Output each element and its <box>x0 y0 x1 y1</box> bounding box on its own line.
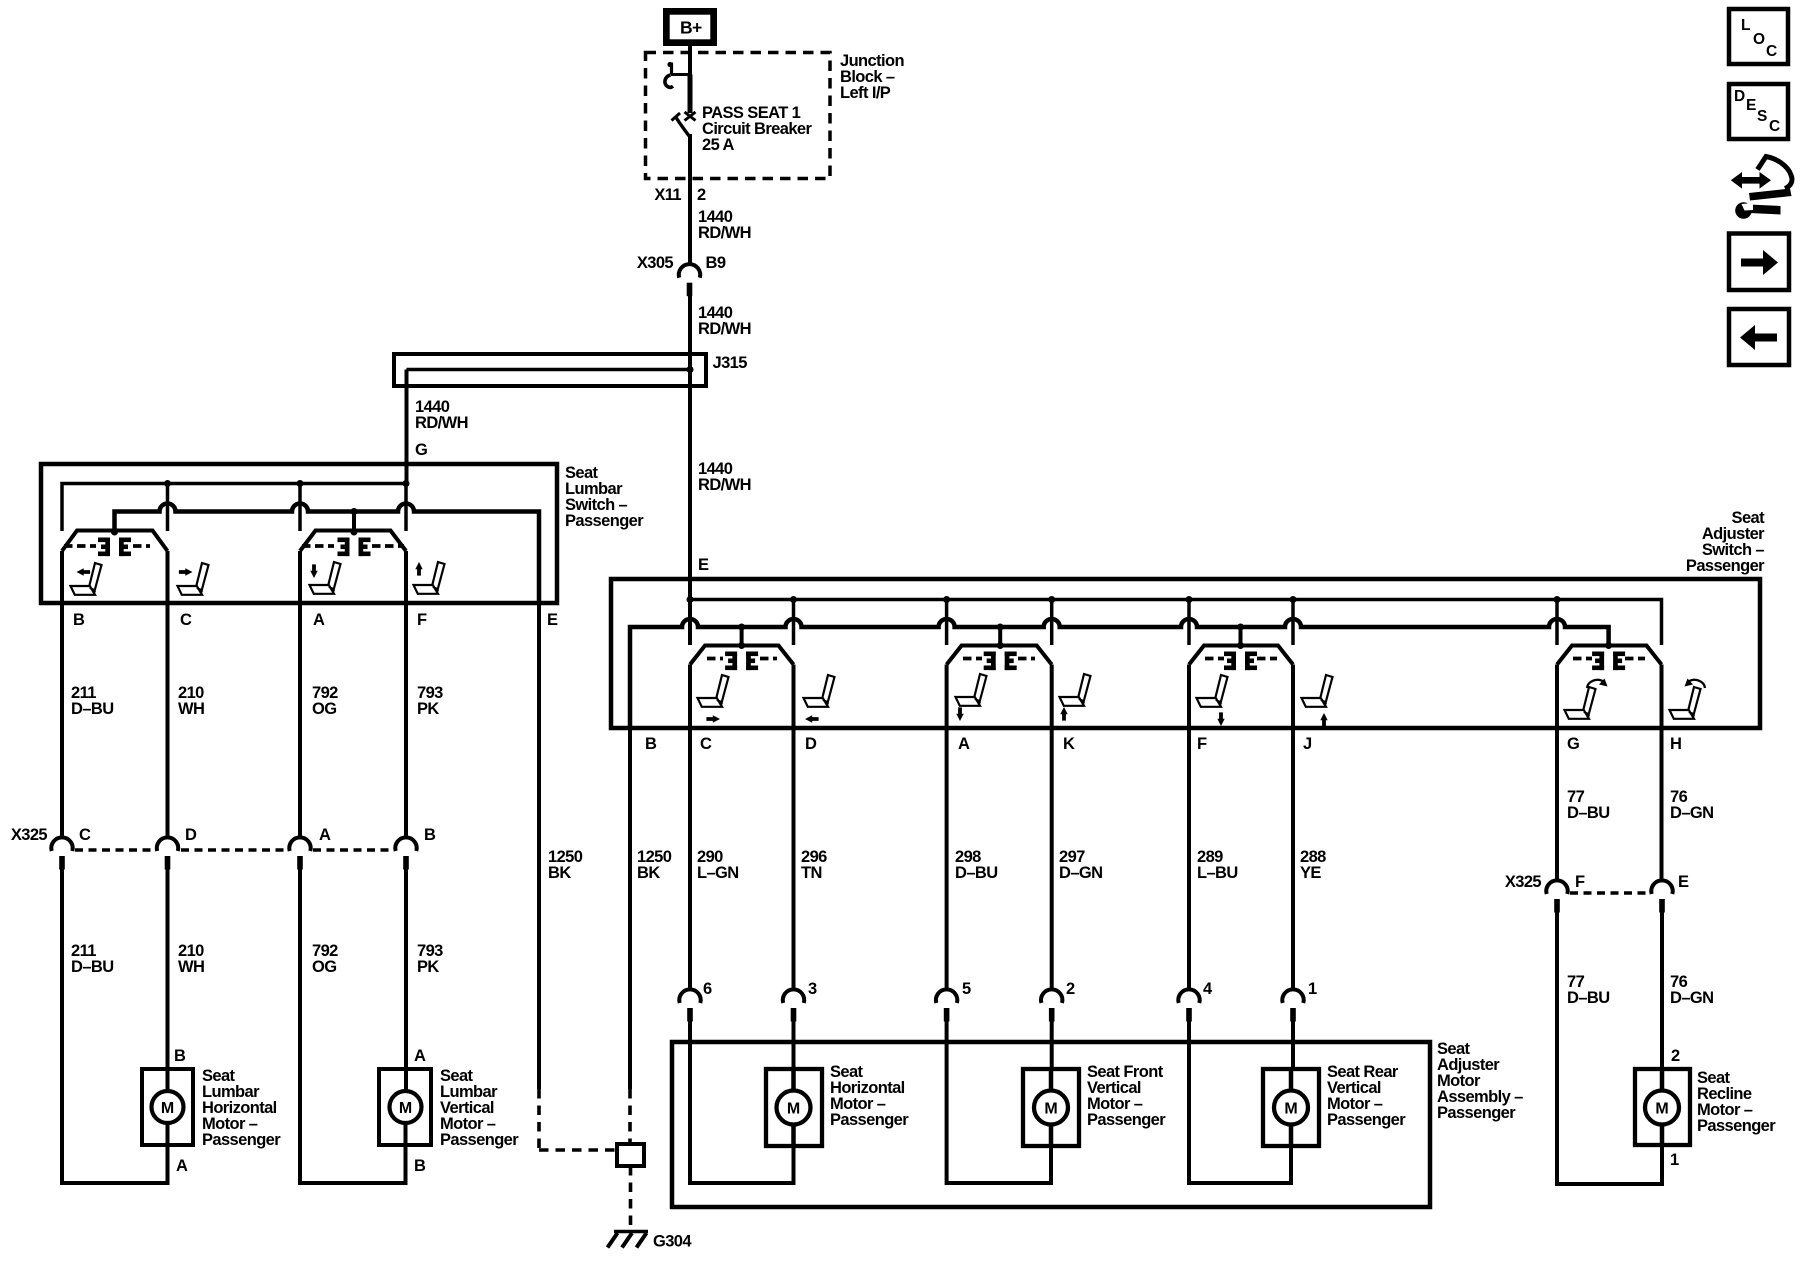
svg-text:D–GN: D–GN <box>1670 989 1713 1007</box>
svg-text:M: M <box>787 1101 800 1118</box>
svg-text:1: 1 <box>1670 1151 1679 1169</box>
seat icon down <box>956 674 987 706</box>
svg-text:Passenger: Passenger <box>440 1131 519 1149</box>
wire 76 D-GN (X325 to recline motor 2) <box>1660 912 1664 1069</box>
svg-text:L–BU: L–BU <box>1197 864 1238 882</box>
forward arrow icon <box>1729 234 1789 291</box>
svg-text:2: 2 <box>1066 980 1075 998</box>
svg-text:M: M <box>1044 1101 1057 1118</box>
svg-text:WH: WH <box>178 700 204 718</box>
wire 211 D-BU (X325 to lumbar horizontal motor A) <box>60 869 64 1183</box>
wire 290 L-GN (C to motor pin 6) <box>688 665 692 991</box>
seat icon down <box>310 562 341 594</box>
wire 1250 BK (lumbar E to splice) <box>537 603 541 1089</box>
seat icon up <box>414 562 445 594</box>
svg-text:C: C <box>1769 118 1780 135</box>
svg-text:M: M <box>1284 1101 1297 1118</box>
svg-text:J315: J315 <box>713 354 748 372</box>
svg-text:B: B <box>645 735 657 753</box>
wire 288 YE (J to motor pin 1) <box>1291 665 1295 991</box>
svg-text:WH: WH <box>178 958 204 976</box>
adjuster common bus (B) <box>630 619 1609 728</box>
adjuster switch 2 front vertical (A/K) <box>947 646 1052 665</box>
wire to ground <box>629 1166 633 1229</box>
wire 793 PK (X325 to lumbar vertical motor B) <box>404 869 408 1069</box>
seat front vertical motor <box>1023 1069 1079 1146</box>
svg-text:B+: B+ <box>680 18 702 38</box>
wire 792 OG (X325 to lumbar vertical motor A) <box>298 869 302 1183</box>
svg-text:TN: TN <box>801 864 822 882</box>
svg-text:5: 5 <box>962 980 971 998</box>
svg-text:Left I/P: Left I/P <box>840 84 891 102</box>
seat icon rearward <box>804 675 835 707</box>
svg-text:Passenger: Passenger <box>1686 557 1765 575</box>
splice J315 <box>394 354 706 386</box>
svg-text:4: 4 <box>1203 980 1213 998</box>
svg-text:D–BU: D–BU <box>1567 989 1610 1007</box>
lumbar switch 1 horizontal (B/C) <box>62 531 168 552</box>
svg-text:F: F <box>1197 735 1207 753</box>
LOC icon <box>1729 9 1788 64</box>
lumbar switch pin 2 <box>352 512 356 534</box>
wire breaker to X305 <box>688 134 692 264</box>
seat adjuster motor assembly box <box>672 1042 1430 1207</box>
svg-text:X325: X325 <box>1505 873 1542 891</box>
svg-text:B: B <box>424 826 436 844</box>
DESC icon <box>1729 84 1788 139</box>
svg-text:Passenger: Passenger <box>1697 1117 1776 1135</box>
svg-text:C: C <box>79 826 91 844</box>
svg-text:D–BU: D–BU <box>955 864 998 882</box>
svg-text:A: A <box>414 1047 426 1065</box>
splice square <box>617 1144 644 1166</box>
svg-text:B: B <box>174 1047 186 1065</box>
svg-text:M: M <box>161 1100 174 1117</box>
wire 792 OG (A to X325 A) <box>298 484 302 532</box>
svg-text:BK: BK <box>637 864 660 882</box>
svg-text:M: M <box>1655 1101 1668 1118</box>
adjuster switch 4 recline (G/H) <box>1557 646 1662 665</box>
wire 1440 RD/WH J315 to seat adjuster switch <box>688 386 692 645</box>
wire 210 WH (X325 to lumbar horizontal motor B) <box>166 869 170 1069</box>
svg-text:PK: PK <box>417 958 439 976</box>
svg-text:D–BU: D–BU <box>1567 804 1610 822</box>
seat rear vertical motor <box>1263 1069 1319 1146</box>
wire B+ to circuit breaker <box>688 44 692 76</box>
svg-text:L: L <box>1741 17 1750 34</box>
wrench navigation icon <box>1731 157 1792 219</box>
adjuster switch 1 seat horizontal (C/D) <box>690 646 794 665</box>
seat icon up <box>1060 674 1091 706</box>
svg-text:B: B <box>73 611 85 629</box>
svg-text:2: 2 <box>697 186 706 204</box>
svg-text:D: D <box>185 826 197 844</box>
svg-text:Passenger: Passenger <box>202 1131 281 1149</box>
wire 77 D-BU (X325 to recline motor 1) <box>1555 912 1559 1184</box>
wire 1250 BK (B to splice) <box>628 728 632 1089</box>
svg-text:D–BU: D–BU <box>71 700 114 718</box>
svg-text:B: B <box>414 1157 426 1175</box>
svg-text:RD/WH: RD/WH <box>698 320 751 338</box>
seat icon down <box>1197 675 1228 707</box>
svg-text:C: C <box>1766 43 1777 60</box>
svg-text:S: S <box>1757 108 1767 125</box>
wire 297 D-GN (K to motor pin 2) <box>1050 665 1054 991</box>
svg-text:C: C <box>700 735 712 753</box>
seat icon up <box>1302 675 1333 707</box>
svg-text:A: A <box>313 611 325 629</box>
svg-text:G: G <box>1567 735 1579 753</box>
svg-text:RD/WH: RD/WH <box>415 414 468 432</box>
svg-text:E: E <box>547 611 558 629</box>
svg-text:D: D <box>805 735 817 753</box>
svg-text:F: F <box>417 611 427 629</box>
adjuster feed drops <box>792 600 796 646</box>
svg-text:OG: OG <box>312 700 336 718</box>
connector X305 pin B9 <box>679 264 700 296</box>
battery feed B+ <box>663 8 717 46</box>
seat lumbar switch box <box>41 464 557 603</box>
svg-text:RD/WH: RD/WH <box>698 224 751 242</box>
svg-text:RD/WH: RD/WH <box>698 476 751 494</box>
wire 298 D-BU (A to motor pin 5) <box>945 665 949 991</box>
svg-text:M: M <box>399 1100 412 1117</box>
svg-text:Passenger: Passenger <box>565 512 644 530</box>
seat icon recline forward <box>1670 687 1701 719</box>
seat icon forward <box>698 675 729 707</box>
svg-text:B9: B9 <box>706 254 726 272</box>
lumbar feed bus <box>62 484 406 532</box>
svg-text:Passenger: Passenger <box>1437 1104 1516 1122</box>
svg-text:E: E <box>1746 97 1756 114</box>
svg-text:D–GN: D–GN <box>1059 864 1102 882</box>
back arrow icon <box>1729 309 1789 365</box>
svg-text:X305: X305 <box>637 254 674 272</box>
svg-text:BK: BK <box>548 864 571 882</box>
svg-text:A: A <box>319 826 331 844</box>
svg-text:Passenger: Passenger <box>1327 1111 1406 1129</box>
svg-text:2: 2 <box>1671 1047 1680 1065</box>
adjuster switch 3 rear vertical (F/J) <box>1189 646 1293 665</box>
svg-text:6: 6 <box>703 980 712 998</box>
seat icon rearward <box>71 563 102 595</box>
seat icon recline back <box>1565 687 1596 719</box>
svg-text:YE: YE <box>1300 864 1321 882</box>
svg-text:A: A <box>176 1157 188 1175</box>
wire 210 WH (C to X325 D) <box>166 484 170 532</box>
wire 296 TN (D to motor pin 3) <box>792 665 796 991</box>
lumbar common bus (E) <box>115 504 540 604</box>
adjuster switch pins <box>740 627 744 647</box>
lumbar switch 2 vertical (A/F) <box>300 531 406 552</box>
svg-text:F: F <box>1575 873 1585 891</box>
ground G304 <box>608 1232 649 1248</box>
wire 1440 RD/WH branch G to lumbar switch <box>405 370 409 484</box>
svg-text:X325: X325 <box>11 826 48 844</box>
svg-text:C: C <box>180 611 192 629</box>
svg-text:Passenger: Passenger <box>830 1111 909 1129</box>
wire 289 L-BU (F to motor pin 4) <box>1187 665 1191 991</box>
junction block dashed box <box>646 53 831 179</box>
svg-text:Passenger: Passenger <box>1087 1111 1166 1129</box>
svg-text:D–BU: D–BU <box>71 958 114 976</box>
seat horizontal motor <box>766 1069 822 1146</box>
svg-text:J: J <box>1303 735 1312 753</box>
seat adjuster switch box <box>611 579 1760 728</box>
wire 76 D-GN (H to X325 E) <box>1660 665 1664 881</box>
svg-text:G304: G304 <box>653 1233 692 1251</box>
svg-text:PK: PK <box>417 700 439 718</box>
seat icon forward <box>178 563 209 595</box>
svg-text:H: H <box>1670 735 1681 753</box>
svg-text:L–GN: L–GN <box>697 864 739 882</box>
wire 793 PK (F to X325 B) <box>404 484 408 532</box>
svg-text:D–GN: D–GN <box>1670 804 1713 822</box>
svg-text:OG: OG <box>312 958 336 976</box>
svg-text:3: 3 <box>808 980 817 998</box>
wire 1440 RD/WH X305 to J315 <box>688 296 692 386</box>
circuit breaker PASS SEAT 1 25 A <box>665 62 696 136</box>
svg-text:D: D <box>1734 88 1745 105</box>
svg-text:E: E <box>1678 873 1689 891</box>
adjuster feed bus <box>690 600 1662 646</box>
wire 77 D-BU (G to X325 F) <box>1555 665 1559 881</box>
wire 211 D-BU (B to X325 C) <box>60 551 64 838</box>
svg-text:25 A: 25 A <box>702 136 735 154</box>
svg-text:K: K <box>1063 735 1075 753</box>
svg-text:1: 1 <box>1308 980 1317 998</box>
svg-text:E: E <box>698 556 709 574</box>
svg-text:O: O <box>1753 31 1765 48</box>
svg-text:X11: X11 <box>654 186 681 204</box>
svg-text:G: G <box>415 441 427 459</box>
svg-text:A: A <box>958 735 970 753</box>
